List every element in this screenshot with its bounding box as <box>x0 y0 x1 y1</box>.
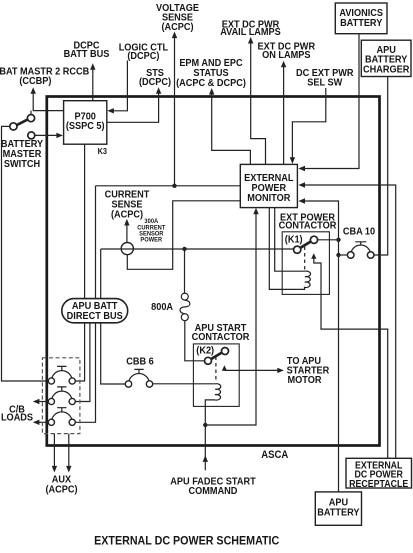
K2 dashed actuator link <box>215 357 217 383</box>
wire EPM to K1 coil <box>275 208 306 272</box>
node junction K1-EPM <box>336 238 340 242</box>
bus APU BATT DIRECT BUS <box>62 299 128 323</box>
node junction CBA-APU battery <box>336 253 340 257</box>
K1 switch contacts <box>294 246 301 253</box>
wire receptacle to EPM <box>303 185 396 458</box>
wire junction vertical K1 to CBA <box>338 240 340 255</box>
svg-text:SWITCH: SWITCH <box>4 159 40 171</box>
svg-text:(SSPC 5): (SSPC 5) <box>66 121 105 133</box>
wire K2 coil to FADEC command <box>204 425 206 470</box>
wire P700 down to CB1 <box>75 144 84 381</box>
wire AVIONICS BATTERY to EPM <box>303 34 359 169</box>
K1 dashed actuator link <box>304 247 306 270</box>
svg-text:EXTERNAL DC POWER SCHEMATIC: EXTERNAL DC POWER SCHEMATIC <box>94 535 279 548</box>
K1 actuator arrow <box>311 253 316 259</box>
svg-text:(CCBP): (CCBP) <box>19 76 51 88</box>
fuse 800A <box>181 293 188 300</box>
wire sensor line down to CBB 6 <box>101 249 126 384</box>
sensor current 300A <box>121 243 133 255</box>
box EXTERNAL POWER MONITOR <box>240 164 297 207</box>
wire stadium tap to CB2 <box>75 323 90 402</box>
breaker CB3 <box>48 408 75 426</box>
node voltage sense junction <box>172 184 176 188</box>
svg-text:BATTERY: BATTERY <box>340 17 383 29</box>
box APU BATTERY <box>315 492 361 525</box>
svg-text:CONTACTOR: CONTACTOR <box>192 331 250 343</box>
svg-text:800A: 800A <box>151 302 173 314</box>
svg-text:SEL SW: SEL SW <box>307 77 343 89</box>
box AVIONICS BATTERY <box>335 3 387 34</box>
ASCA enclosure box <box>47 97 380 446</box>
wire LOGIC CTL <box>112 61 127 111</box>
wire AUX arrow 2 <box>68 434 70 467</box>
wire DCPC BATT BUS <box>92 68 94 101</box>
wire C/B LOADS arrow 2 <box>38 421 49 423</box>
svg-text:POWER: POWER <box>140 236 162 243</box>
wire 800A branch down <box>184 249 186 293</box>
wire K1 common to receptacle <box>314 258 388 458</box>
svg-text:LOADS: LOADS <box>1 412 34 424</box>
wire EXT DC PWR AVAIL LAMPS <box>251 41 266 164</box>
wire VOLTAGE SENSE <box>174 36 176 186</box>
svg-text:CBA 10: CBA 10 <box>343 226 375 238</box>
wire K1 junction to EPM <box>303 201 339 240</box>
wire EPM AND EPC STATUS <box>212 92 251 164</box>
svg-text:RECEPTACLE: RECEPTACLE <box>349 478 408 489</box>
breaker CB2 <box>48 387 75 405</box>
breaker CB1 <box>48 366 75 384</box>
wire AUX arrow 1 <box>53 434 55 467</box>
svg-text:ON LAMPS: ON LAMPS <box>262 49 311 61</box>
wire APU BATTERY CHARGER to CBA 10 <box>374 77 388 256</box>
K2 lever <box>211 352 223 359</box>
wire STS <box>107 92 159 123</box>
svg-text:DIRECT BUS: DIRECT BUS <box>67 310 124 322</box>
dashed C/B loads box <box>42 358 80 434</box>
svg-text:CHARGER: CHARGER <box>363 64 409 76</box>
svg-text:(ACPC): (ACPC) <box>111 209 143 221</box>
box EXTERNAL DC POWER RECEPTACLE <box>346 458 412 488</box>
contactor K1 box <box>282 232 329 295</box>
breaker CBB 6 <box>125 369 152 387</box>
svg-text:ASCA: ASCA <box>261 450 289 462</box>
svg-text:BATT BUS: BATT BUS <box>64 48 110 60</box>
box P700 (SSPC 5) <box>64 101 107 145</box>
switch battery master <box>10 115 35 139</box>
K2 switch contacts <box>205 357 212 364</box>
coil K1 <box>269 208 310 290</box>
wire K2 junction to EPM bottom <box>205 212 256 425</box>
wire left column CB3 <box>75 186 95 422</box>
wire C/B LOADS arrow 1 <box>38 401 49 403</box>
K2 actuator arrow <box>222 365 227 371</box>
wire CBA left terminal <box>339 254 348 256</box>
svg-text:BATTERY: BATTERY <box>317 507 360 519</box>
wire K2 output to APU starter motor <box>224 369 279 371</box>
svg-text:(K2): (K2) <box>196 345 214 357</box>
wire battery rail: switch left to CB1 <box>2 126 49 381</box>
node 800A branch junction <box>182 247 186 251</box>
wire CBB 6 to K2 coil <box>153 383 216 385</box>
wire sensor bottom loop to EPM <box>127 201 240 269</box>
wire main sensor line to K1 <box>101 248 294 250</box>
svg-text:AVAIL LAMPS: AVAIL LAMPS <box>220 26 281 38</box>
svg-text:CBB 6: CBB 6 <box>126 356 154 368</box>
svg-text:MOTOR: MOTOR <box>288 374 322 386</box>
wire battery switch upper contact stub <box>30 111 32 115</box>
wire current sense top line to EPM <box>96 185 241 187</box>
svg-text:COMMAND: COMMAND <box>189 486 238 498</box>
svg-text:(DCPC): (DCPC) <box>127 51 159 63</box>
svg-text:CONTACTOR: CONTACTOR <box>279 220 337 232</box>
box APU BATTERY CHARGER <box>361 40 411 76</box>
wire DC EXT PWR SEL SW <box>292 88 325 159</box>
wire BAT MASTR 2 RCCB from P700 <box>33 92 63 111</box>
breaker CBA 10 <box>347 242 374 258</box>
wire K1 switch output <box>318 239 339 241</box>
svg-text:(ACPC): (ACPC) <box>161 21 193 33</box>
wire battery switch output to P700 <box>35 134 57 136</box>
svg-text:K3: K3 <box>98 147 108 156</box>
svg-text:(K1): (K1) <box>285 234 303 246</box>
K1 lever <box>300 241 312 248</box>
wire 800A to K2 <box>185 321 205 361</box>
wire 300A current sensor power arrow <box>126 223 128 243</box>
svg-text:(ACPC): (ACPC) <box>45 484 77 496</box>
svg-text:(DCPC): (DCPC) <box>139 77 171 89</box>
coil K2 <box>205 384 220 425</box>
wire EXT DC PWR ON LAMPS <box>283 65 285 164</box>
svg-text:MONITOR: MONITOR <box>247 193 290 205</box>
node K2 coil junction <box>203 423 207 427</box>
wire junction to APU BATTERY <box>338 255 340 492</box>
contactor K2 box <box>193 344 239 407</box>
svg-text:(ACPC & DCPC): (ACPC & DCPC) <box>176 78 246 90</box>
